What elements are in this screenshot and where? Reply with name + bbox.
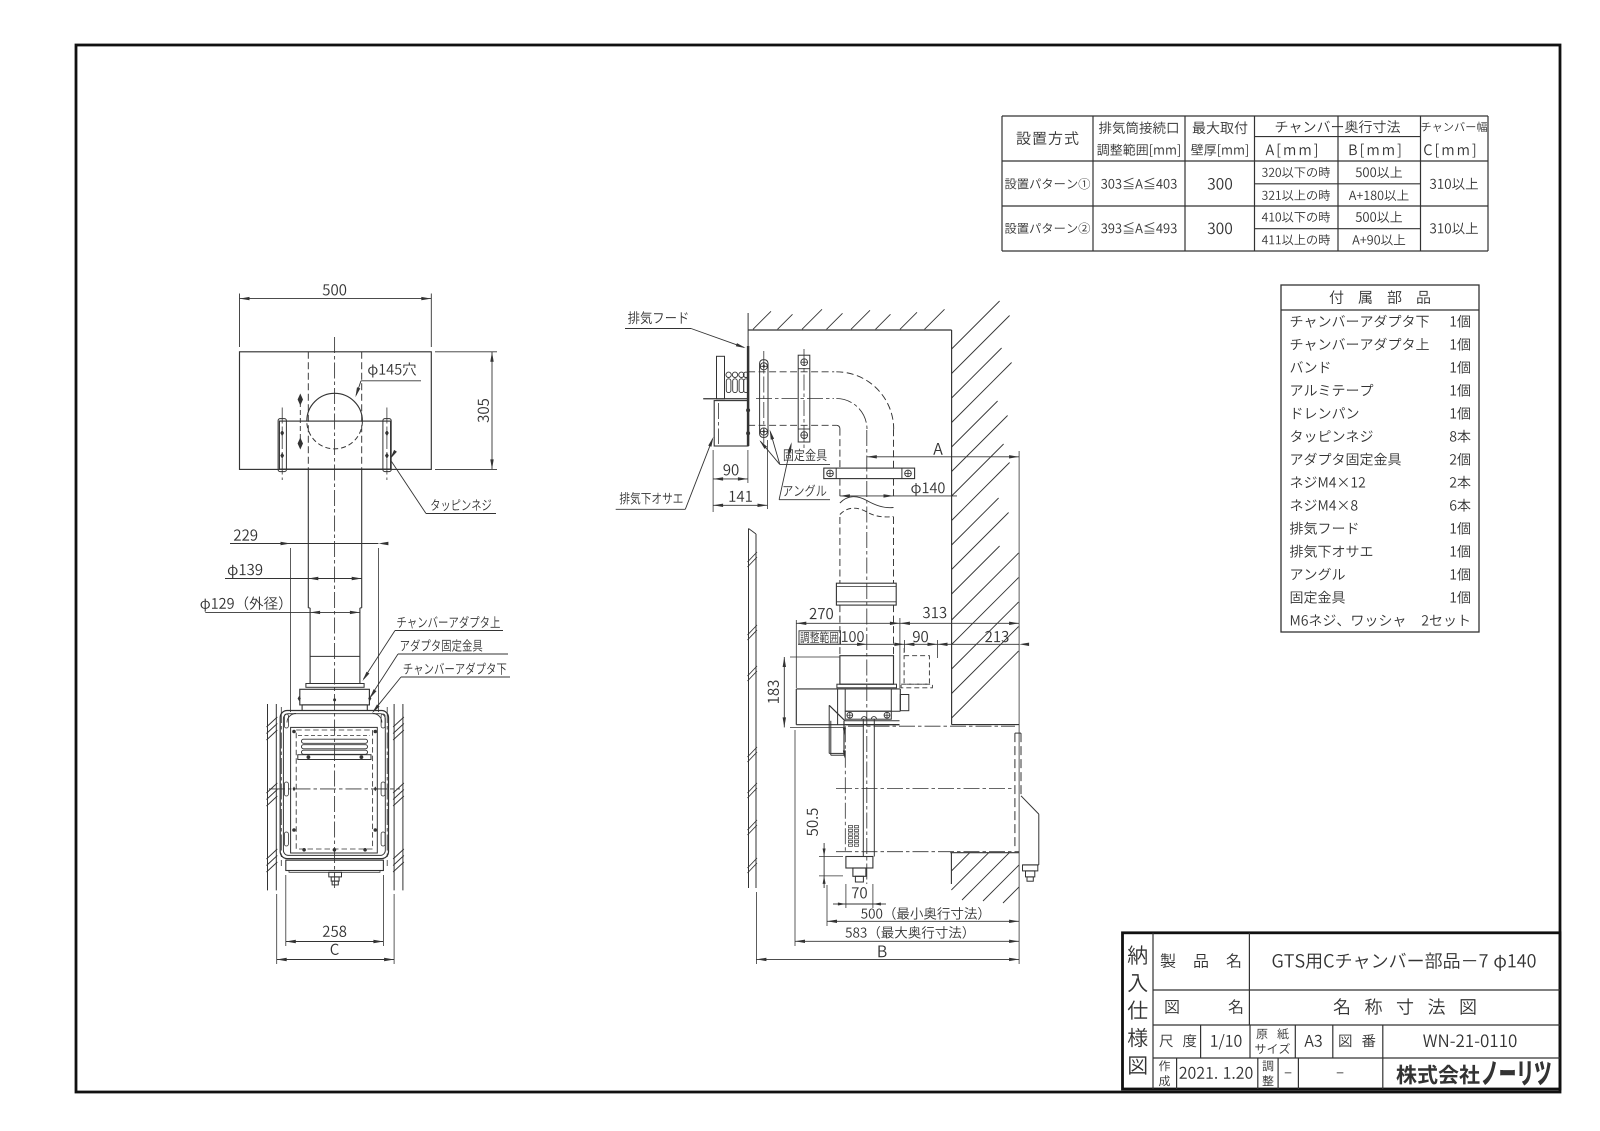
front view label tapping screw with leader	[390, 450, 496, 514]
front view pipe phi139 below flange	[308, 469, 361, 608]
side view dimension 500 min depth	[827, 885, 1019, 926]
front view wall hole circle phi145	[307, 393, 363, 449]
side view right reference extension line	[1018, 451, 1020, 964]
front view dimension 500	[240, 284, 432, 347]
side view heater phantom lines	[836, 726, 1019, 852]
front view dimension 258	[286, 875, 384, 946]
side view chamber adapter upper band	[837, 656, 897, 688]
front view horizontal centerline with marks	[269, 787, 400, 792]
side view right wall lower block with hatch	[950, 853, 1019, 903]
front view exhaust hood flange	[278, 408, 391, 481]
installation spec table grid	[1002, 116, 1488, 251]
title block product name row	[1161, 952, 1536, 971]
side view label exhaust lower holder with leader	[616, 437, 714, 509]
side view pipe break wave	[840, 497, 894, 517]
spec table row pattern 1	[1005, 166, 1478, 201]
side view drain pipe down	[863, 719, 874, 856]
side view perforated strip	[849, 826, 859, 847]
title block vertical label 納入仕様図	[1128, 945, 1148, 1074]
side view exhaust lower holder box	[714, 401, 748, 446]
front view base plate	[286, 860, 384, 872]
accessory parts table title	[1330, 290, 1430, 304]
side view dimension 90 hood	[713, 450, 748, 512]
side view angle bracket plate	[798, 349, 810, 448]
front view chamber adapter upper lower band	[306, 656, 364, 687]
title block date row	[1159, 1060, 1343, 1086]
side view dimension 141	[713, 440, 767, 509]
side view hidden horizontal pipe phi140	[748, 372, 837, 426]
side view exhaust hood upper with louver	[717, 356, 749, 399]
accessory parts table rows	[1290, 315, 1471, 627]
side view dimension 183	[768, 657, 845, 727]
side view label angle with leader	[779, 442, 830, 500]
front view chamber inner panel	[291, 727, 378, 853]
front view drain stub	[329, 872, 342, 885]
title block frame	[1123, 933, 1561, 1089]
side view hood back screws	[746, 408, 750, 435]
front view panel slots	[284, 714, 385, 846]
front view wall panel 500x305	[240, 352, 432, 470]
side view band clamp	[824, 468, 915, 479]
front view louver grille	[298, 736, 370, 755]
side view hood mid flange line	[703, 398, 748, 400]
front view label phi145 hole with leader	[355, 362, 421, 397]
side view dimension A	[867, 443, 1019, 459]
side view drain pan	[829, 705, 899, 758]
spec table row pattern 2	[1005, 211, 1478, 245]
side view dimension 70	[833, 884, 886, 908]
side view right wall face and hatch	[952, 301, 1020, 725]
side view dimension 583 max depth	[795, 730, 1019, 946]
title block scale row	[1160, 1028, 1517, 1054]
side view drain fitting	[846, 857, 873, 883]
side view chamber top corner hooks	[287, 714, 382, 723]
side view dimensions adjust range 100 90 213	[798, 631, 1029, 658]
front view mounting plate with screws	[298, 755, 371, 760]
side view heater back profile	[1015, 733, 1039, 881]
side view label exhaust hood with leader	[625, 311, 746, 348]
side view pipe joint collar	[836, 583, 896, 605]
front view inner pipe phi129	[310, 608, 360, 684]
side view adapter alternate position dashed	[901, 648, 932, 688]
side view label fixing bracket with leaders	[759, 430, 830, 465]
side view dimensions 270 and 313	[796, 607, 1019, 688]
side view front wall section strip below	[748, 529, 758, 889]
front view adapter fixing bracket screws	[298, 696, 372, 701]
company logo 株式会社ノーリツ	[1396, 1061, 1550, 1086]
front view dimension 305	[435, 352, 497, 470]
side view niche top edge with hatch	[748, 309, 952, 330]
front view dimension phi129 outer dia	[201, 596, 360, 614]
side view fixing bracket at wall	[760, 351, 768, 445]
front view tapping screws on flange tabs	[280, 430, 389, 459]
front view labels chamber adapter upper / bracket / lower	[363, 616, 504, 681]
front view chamber phantom side lines	[281, 707, 387, 866]
side view front wall face line	[747, 313, 749, 446]
front view chamber adapter lower	[300, 689, 370, 710]
front view dimension C	[277, 894, 394, 964]
front view pipe phi139 hidden above flange	[308, 352, 361, 469]
front view side rails with break marks	[267, 704, 404, 890]
front view dimension phi139	[225, 564, 362, 580]
accessory parts table box	[1281, 285, 1479, 632]
front view dimension 229	[230, 529, 388, 712]
title block drawing name row	[1165, 998, 1475, 1015]
front view hidden interior dashed rect	[296, 730, 372, 849]
side view dimension phi140 with label	[840, 482, 957, 497]
side view dimension B	[756, 892, 1019, 964]
side view dimension 50.5	[807, 808, 843, 888]
side view chamber front box and flange	[796, 689, 909, 725]
side view mounting plate side with screws	[845, 711, 891, 719]
front view vertical adjust arrow	[298, 394, 303, 450]
front view panel corner screws	[292, 730, 377, 852]
front view centerline vertical	[334, 337, 336, 888]
front view chamber outer box	[280, 711, 388, 859]
spec table header row	[1017, 120, 1487, 157]
side view vertical pipe hidden lines	[840, 429, 894, 884]
side view hidden elbow arcs	[836, 372, 893, 429]
